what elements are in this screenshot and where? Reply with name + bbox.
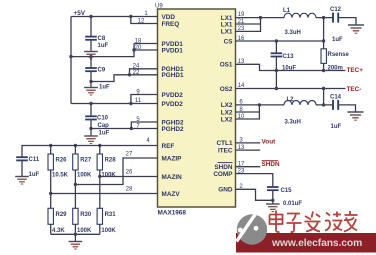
svg-text:13: 13 — [238, 145, 245, 151]
svg-text:PVDD2: PVDD2 — [162, 92, 184, 99]
svg-text:CS: CS — [224, 38, 234, 45]
node C13 top junction — [275, 39, 278, 42]
svg-text:4.3K: 4.3K — [52, 228, 65, 234]
svg-text:0.01uF: 0.01uF — [283, 201, 302, 207]
svg-text:CTL1: CTL1 — [217, 140, 233, 147]
capacitor C10 — [90, 104, 92, 116]
capacitor C8 — [90, 17, 92, 37]
wire pin7 PGHD2 feed — [91, 128, 158, 130]
svg-text:24: 24 — [133, 64, 140, 70]
wire +5V rail to pin1 — [71, 16, 158, 18]
svg-text:SHDN: SHDN — [262, 161, 280, 168]
svg-text:LX1: LX1 — [221, 29, 233, 36]
svg-text:19: 19 — [238, 12, 245, 18]
svg-text:11: 11 — [135, 98, 142, 104]
svg-text:REF: REF — [162, 143, 175, 150]
svg-text:FREQ: FREQ — [162, 21, 180, 28]
node Rsense bottom junction — [322, 69, 325, 72]
svg-text:LX2: LX2 — [221, 116, 233, 123]
svg-text:C12: C12 — [330, 7, 342, 13]
wire pin6 to L2 — [236, 104, 285, 106]
svg-text:C10: C10 — [97, 116, 109, 122]
inductor L2 — [284, 101, 316, 105]
wire pin23 with bracket — [236, 18, 261, 32]
wire PVDD1 feed line — [71, 44, 134, 57]
svg-text:1uF: 1uF — [29, 172, 40, 178]
net label SHDN with overline — [262, 160, 279, 162]
node pin5 bracket junction — [130, 127, 133, 130]
inductor L1 — [284, 13, 316, 17]
svg-text:1uF: 1uF — [99, 85, 110, 91]
svg-text:22: 22 — [133, 70, 140, 76]
node TEC- to L2 junction — [322, 87, 325, 90]
svg-text:GND: GND — [218, 187, 233, 194]
svg-text:C11: C11 — [29, 157, 40, 163]
wire pin5 bracket — [131, 122, 157, 129]
wire pin8 — [236, 111, 260, 113]
node R28 top — [98, 144, 101, 147]
node R27 top — [74, 144, 77, 147]
resistor Rsense 200m — [321, 49, 326, 64]
wire pin26 MAZIN — [100, 176, 158, 178]
svg-text:LX2: LX2 — [221, 102, 233, 109]
node C9 top junction — [89, 55, 92, 58]
ground of C11 — [15, 177, 29, 185]
pin labels right column — [213, 15, 233, 194]
wire pin20 — [134, 49, 158, 51]
svg-text:100K: 100K — [101, 172, 116, 178]
wire pin27 MAZIP — [75, 158, 157, 185]
op-amp U9 MAX1968 IC body — [158, 9, 236, 207]
wire pin24 — [130, 69, 158, 75]
watermark red band — [236, 233, 376, 253]
svg-text:TEC+: TEC+ — [347, 67, 364, 74]
wire pin2 GND — [236, 189, 273, 200]
wire pin22 with step to C9 bottom — [91, 75, 158, 82]
svg-text:PGHD2: PGHD2 — [162, 126, 184, 133]
ground of C12 — [348, 25, 364, 33]
svg-text:21: 21 — [238, 19, 245, 25]
svg-text:www.elecfans.com: www.elecfans.com — [271, 238, 362, 249]
svg-text:ITEC: ITEC — [218, 147, 233, 154]
wire TEC- line down to L2 output — [323, 89, 325, 105]
pin labels left column — [162, 14, 184, 198]
svg-text:PVDD2: PVDD2 — [162, 101, 184, 108]
node R26 top — [49, 144, 52, 147]
wire REF pin4 — [22, 146, 158, 157]
svg-text:L1: L1 — [283, 8, 291, 14]
wire C14 to ground — [338, 105, 355, 112]
node LX1 bracket junction — [259, 16, 262, 19]
wire pin21 — [236, 23, 261, 25]
node LX2 bracket junction — [258, 103, 261, 106]
wire pin10 with bracket — [236, 105, 260, 119]
svg-text:C13: C13 — [283, 54, 295, 60]
svg-text:10: 10 — [238, 114, 245, 120]
node bus center — [74, 233, 77, 236]
svg-text:C8: C8 — [98, 36, 106, 42]
capacitor C13 — [275, 41, 277, 53]
svg-text:20: 20 — [135, 45, 142, 51]
resistor R28 — [99, 146, 101, 155]
svg-text:L2: L2 — [287, 97, 295, 103]
svg-text:R30: R30 — [80, 212, 92, 218]
svg-text:100K: 100K — [77, 172, 92, 178]
svg-text:1uF: 1uF — [331, 124, 342, 130]
node C10 bottom junction — [89, 127, 92, 130]
capacitor C14 — [333, 100, 338, 110]
capacitor C9 — [90, 57, 92, 68]
node L1 output — [322, 16, 325, 19]
resistor R30 — [73, 208, 78, 224]
wire pin12 FREQ with bracket — [131, 17, 158, 24]
wire L2 to C14 — [316, 104, 333, 106]
resistor R27 — [74, 146, 76, 155]
wire left +5V vertical rail — [70, 17, 72, 104]
wire pin23 COMP to C15 — [236, 174, 273, 187]
svg-text:Rsense: Rsense — [328, 52, 350, 58]
svg-text:C14: C14 — [330, 95, 342, 101]
node CS-Rsense junction — [322, 39, 325, 42]
svg-text:MAZV: MAZV — [162, 191, 181, 198]
svg-text:MAX1968: MAX1968 — [158, 210, 187, 217]
wire pin14 OS2 to TEC- — [236, 88, 346, 90]
node C9 bottom junction — [89, 80, 92, 83]
wire pin28 MAZV — [51, 193, 158, 195]
wire to ground C15 — [272, 200, 274, 203]
wire pin16 CS line — [236, 40, 324, 42]
svg-text:R28: R28 — [105, 158, 117, 164]
node C13 bottom junction — [275, 87, 278, 90]
node L2 output — [322, 103, 325, 106]
svg-text:PGHD1: PGHD1 — [162, 72, 184, 79]
node pin22 junction — [128, 73, 131, 76]
ground of C15 — [266, 204, 280, 212]
svg-text:100K: 100K — [101, 228, 116, 234]
svg-text:PVDD1: PVDD1 — [162, 47, 184, 54]
ground of C8 — [84, 52, 98, 60]
svg-text:10.5K: 10.5K — [52, 172, 69, 178]
svg-text:13: 13 — [238, 59, 245, 65]
resistor R26 — [50, 146, 52, 155]
resistor R29 — [48, 208, 53, 224]
svg-text:R31: R31 — [105, 212, 117, 218]
node pin20 junction — [132, 48, 135, 51]
wire C12 to ground — [338, 18, 356, 25]
wire pin19 to L1 — [236, 17, 285, 19]
capacitor C15 — [267, 187, 279, 190]
svg-text:18: 18 — [135, 38, 142, 44]
wire pin13 OS1 to TEC+ — [236, 64, 346, 70]
node R26-R29 junction — [49, 192, 52, 195]
node pin12-rail junction — [129, 15, 132, 18]
ground of resistor divider — [69, 242, 83, 250]
svg-text:100K: 100K — [77, 228, 92, 234]
node C10 top junction — [89, 102, 92, 105]
svg-text:OS1: OS1 — [220, 62, 233, 69]
wire pin3 CTL1 — [236, 142, 261, 144]
svg-text:R27: R27 — [80, 158, 92, 164]
wire pin18 — [134, 43, 158, 45]
svg-text:26: 26 — [126, 169, 133, 175]
svg-text:LX2: LX2 — [221, 109, 233, 116]
node C13-OS1 junction — [275, 69, 278, 72]
ground of C9 — [84, 88, 98, 96]
wire stem to ground — [74, 234, 76, 241]
node R28-R31 junction — [98, 175, 101, 178]
wire pin17 SHDN — [236, 166, 261, 168]
ground of C10 — [84, 136, 98, 144]
svg-text:27: 27 — [126, 151, 133, 157]
wire L1 node down to Rsense — [323, 18, 325, 49]
svg-text:VDD: VDD — [162, 14, 176, 21]
svg-text:28: 28 — [126, 186, 133, 192]
svg-text:U9: U9 — [155, 4, 163, 10]
wire bottom resistor bus — [51, 233, 100, 235]
svg-text:TEC-: TEC- — [347, 86, 362, 93]
svg-text:C9: C9 — [98, 68, 106, 74]
capacitor C12 — [333, 13, 338, 23]
watermark logo disc — [237, 213, 268, 245]
capacitor C11 — [16, 157, 28, 160]
svg-text:OS2: OS2 — [220, 86, 233, 93]
svg-text:14: 14 — [238, 83, 245, 89]
svg-text:23: 23 — [238, 26, 245, 32]
svg-text:23: 23 — [238, 168, 245, 174]
svg-text:MAZIP: MAZIP — [162, 155, 183, 162]
svg-text:Vout: Vout — [262, 139, 277, 146]
svg-text:COMP: COMP — [213, 171, 233, 178]
node pin9 bracket junction — [129, 102, 132, 105]
svg-text:R26: R26 — [56, 158, 68, 164]
wire PVDD2 feed pin11 — [71, 103, 158, 105]
svg-text:1uF: 1uF — [332, 37, 343, 43]
svg-text:LX1: LX1 — [221, 21, 233, 28]
watermark chinese characters — [270, 211, 358, 233]
svg-text:3.3uH: 3.3uH — [285, 30, 301, 36]
ground of C14 — [348, 112, 364, 120]
svg-text:R29: R29 — [56, 212, 68, 218]
wire pin13 ITEC — [236, 149, 261, 151]
node R27-R30 junction — [74, 183, 77, 186]
svg-text:C15: C15 — [281, 188, 293, 194]
svg-text:1uF: 1uF — [99, 131, 110, 137]
svg-text:1uF: 1uF — [98, 43, 109, 49]
wire pin9 bracket — [131, 95, 158, 104]
svg-text:MAZIN: MAZIN — [162, 174, 183, 181]
svg-text:12: 12 — [138, 18, 145, 24]
wire L1 to C12 node — [316, 17, 333, 19]
node C15 bottom junction — [271, 199, 274, 202]
svg-text:17: 17 — [238, 161, 245, 167]
node rail-feed junction — [69, 55, 72, 58]
svg-text:3.3uH: 3.3uH — [285, 120, 301, 126]
resistor R31 — [97, 208, 102, 224]
